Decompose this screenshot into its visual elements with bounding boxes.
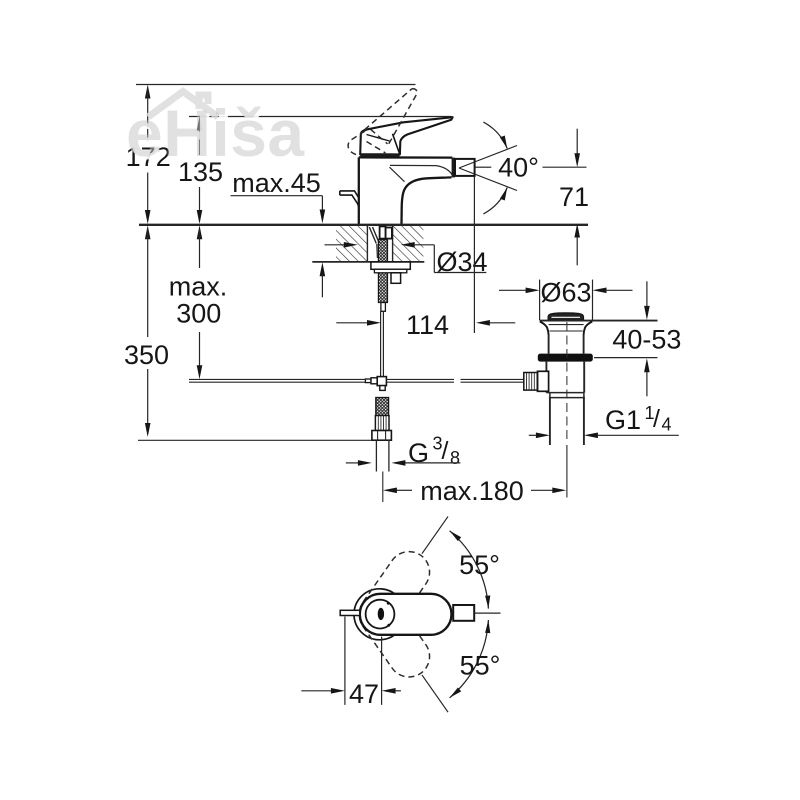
hose fittings inside deck hole [380,226,386,238]
waste plug cap [548,313,583,320]
top view handle rotated -55 (dashed) [351,586,437,685]
svg-text:/: / [442,437,449,465]
dimension 40-53 (waste adjustment range) [594,357,658,359]
svg-text:eHiša: eHiša [126,96,305,170]
dimension 47 (knob offset) [344,617,346,705]
mounting flange second tier [374,269,406,273]
svg-text:Ø34: Ø34 [436,247,487,277]
svg-text:55°: 55° [459,550,500,580]
mounting flange plate [371,262,410,269]
dimension max.300 (vertical, deck to pop-up rod) [197,225,203,239]
top view lever slot [378,608,384,620]
svg-text:/: / [653,405,660,433]
top view centerline right [474,612,500,614]
spout inner contour lines [390,165,452,174]
dimension 71 (spout height above deck) [476,166,492,168]
svg-text:300: 300 [176,299,221,329]
pop-up rod (vertical thin) [380,311,382,377]
dimension 40 deg (spout angle) [459,146,517,169]
svg-text:350: 350 [124,340,169,370]
counter bottom line [312,261,424,263]
waste rubber seal [538,354,593,362]
dimension O63 (waste flange diameter) [539,280,541,321]
lever handle raised position (dashed) [365,89,412,130]
aerator block [455,159,475,176]
counter top line [139,224,588,226]
top view spout stub [453,605,474,621]
pop-up horizontal rod [189,378,365,380]
top view handle rotated +55 (dashed) [351,544,437,643]
pop-up rod pivot junction [365,379,371,383]
top view pop-up knob stub [340,610,360,615]
svg-text:55°: 55° [460,651,501,681]
top view outer body circle [354,589,405,640]
top view screw dots [387,602,390,605]
threaded shank (cross-hatched) [378,240,387,303]
deck hole right edge [392,225,394,262]
faucet body outline [358,157,360,224]
svg-text:Ø63: Ø63 [540,277,591,307]
svg-text:max.180: max.180 [420,476,524,506]
waste flange body [540,320,658,322]
shank lower tip [381,303,386,312]
dimension O34 (deck hole diameter) [325,244,345,246]
top view inner circle [366,600,395,629]
deck hatch left [336,226,367,261]
svg-text:40-53: 40-53 [612,324,681,354]
svg-text:max.: max. [169,272,228,302]
waste tailpipe [549,398,551,445]
watermark eHisa [148,92,218,118]
dimension 55 deg swivel (both) [422,516,448,553]
svg-text:4: 4 [662,415,672,435]
svg-text:114: 114 [406,310,449,340]
dimension 135 (vertical, spout lever level to deck) [197,117,203,131]
dimension 172 (vertical, lever tip to deck) [145,85,151,99]
flexible hose with G3/8 nut [376,398,389,416]
top view body bold ring [361,595,399,633]
waste centerline extension [566,445,568,498]
extension line top (lever raised tip level) [136,84,416,86]
dimension max.180 (center distance) [383,488,397,494]
pop-up rod knob (left of body) [340,191,359,206]
svg-text:8: 8 [450,448,460,468]
deck hole left edge [366,225,368,262]
deck hatch right [393,226,424,261]
waste centerline dashed [566,322,568,440]
dimension 114 (spout projection) [336,322,367,324]
waste lever boss and knurled knob [538,371,549,391]
mounting nut block [391,273,401,284]
spout end dark ring [452,158,455,178]
svg-text:G1: G1 [605,405,641,435]
svg-text:40°: 40° [498,153,539,183]
extension line (lever rest tip level) [189,116,452,118]
lever handle (solid, rest position) [360,117,452,154]
dimension 350 (vertical, deck to hose end) [145,225,151,239]
top view handle (solid stadium) [360,594,452,635]
svg-text:71: 71 [559,182,589,212]
waste body [545,362,547,393]
svg-text:47: 47 [349,679,379,709]
